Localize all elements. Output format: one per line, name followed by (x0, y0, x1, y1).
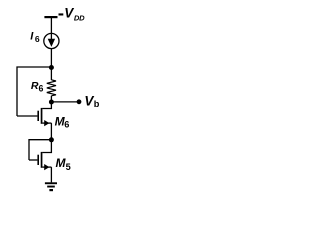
M5 gate lead wire (29, 159, 37, 161)
M5 source stub (42, 166, 51, 168)
wire mid node to M5 drain (42, 140, 51, 153)
Vb terminal dot (77, 99, 82, 104)
wire to Vb terminal (51, 101, 78, 103)
junction dot Vb node (49, 100, 54, 105)
M6 source arrow (44, 120, 49, 126)
svg-text:6: 6 (35, 34, 40, 44)
wire VDD to current source (50, 18, 52, 33)
current source I6 circle (44, 33, 59, 48)
VDD supply rail bar (44, 16, 57, 18)
svg-text:6: 6 (64, 120, 69, 130)
current source arrow stem (50, 34, 52, 40)
wire mid node to M5 gate (29, 140, 51, 160)
wire current source to node (50, 49, 52, 68)
resistor R6 (47, 80, 56, 96)
svg-text:V: V (64, 6, 74, 21)
current source arrow head (48, 39, 55, 47)
M5 source arrow (44, 164, 49, 170)
M6 source stub (42, 122, 51, 124)
wire node to left branch (17, 67, 51, 116)
ground bar 2 (47, 186, 55, 188)
wire Vb node to M6 drain (42, 102, 51, 109)
junction dot top node (49, 65, 54, 70)
transistor M6 channel bar (41, 108, 43, 124)
svg-text:6: 6 (39, 83, 44, 93)
svg-text:b: b (94, 99, 100, 109)
transistor M5 channel bar (41, 152, 43, 168)
VDD label dash (59, 13, 64, 15)
wire M6 source to mid node (50, 123, 52, 140)
ground bar 3 (49, 189, 53, 191)
transistor M6 gate bar (37, 111, 39, 121)
svg-text:DD: DD (74, 13, 85, 22)
svg-text:I: I (30, 30, 34, 42)
svg-text:5: 5 (66, 162, 71, 172)
M6 gate lead wire (17, 115, 37, 117)
ground bar 1 (45, 182, 57, 184)
wire resistor to Vb node (50, 96, 52, 102)
wire M5 source to ground (50, 167, 52, 182)
transistor M5 gate bar (37, 155, 39, 165)
wire node to resistor (50, 68, 52, 81)
junction dot mid node (49, 137, 54, 142)
